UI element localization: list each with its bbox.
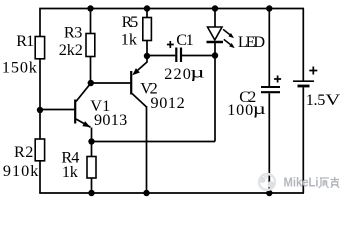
svg-text:9013: 9013 <box>94 111 127 129</box>
svg-text:LED: LED <box>238 33 265 51</box>
svg-text:R2: R2 <box>14 143 33 161</box>
svg-text:R5: R5 <box>122 13 139 31</box>
svg-text:R1: R1 <box>16 32 34 50</box>
svg-text:150k: 150k <box>2 58 38 76</box>
svg-text:220: 220 <box>164 65 191 83</box>
svg-text:R3: R3 <box>64 24 83 42</box>
svg-text:µ: µ <box>253 100 266 118</box>
svg-text:2k2: 2k2 <box>59 41 83 59</box>
svg-text:V: V <box>325 92 341 109</box>
svg-text:100: 100 <box>227 101 253 119</box>
svg-text:1k: 1k <box>62 163 79 181</box>
svg-text:910k: 910k <box>3 162 39 180</box>
svg-text:µ: µ <box>190 63 204 81</box>
svg-text:9012: 9012 <box>151 94 185 112</box>
svg-text:1k: 1k <box>121 30 138 48</box>
svg-text:MikeLi: MikeLi <box>284 176 319 190</box>
svg-text:C1: C1 <box>176 31 194 49</box>
svg-text:1.5: 1.5 <box>306 91 326 109</box>
